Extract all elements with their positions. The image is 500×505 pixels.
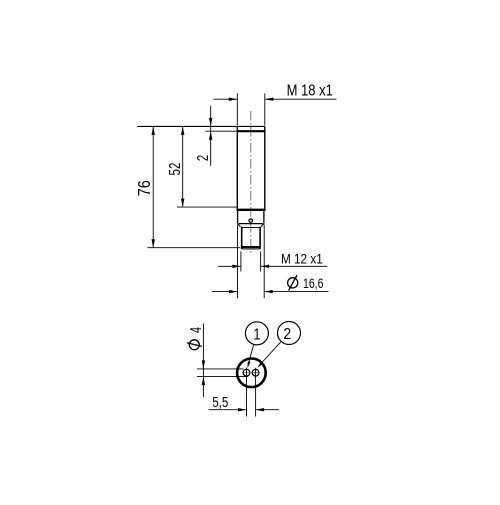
svg-text:1: 1: [253, 326, 260, 344]
extension lines body dia (16.6): [238, 225, 265, 299]
svg-text:M 18 x1: M 18 x1: [287, 82, 333, 99]
M12 thread section: [241, 227, 261, 249]
svg-text:4: 4: [187, 327, 204, 333]
M12 thread relief thick line: [242, 246, 260, 248]
dim 5,5: [209, 409, 280, 411]
body top face line with left extension: [137, 125, 265, 127]
svg-text:76: 76: [135, 180, 155, 196]
pin 2: [252, 369, 259, 376]
connector circle: [237, 359, 266, 388]
svg-text:16,6: 16,6: [303, 275, 324, 291]
extension lines below M12: [241, 252, 261, 272]
svg-text:2: 2: [283, 325, 291, 343]
dia symbol 16.6: [288, 275, 298, 290]
leader 2: [261, 341, 281, 363]
body bottom thick line: [237, 209, 266, 211]
dim 2 line: [210, 106, 212, 166]
dim 76 line: [152, 126, 154, 247]
balloon 2: [278, 322, 301, 345]
dia 4 label: [187, 340, 202, 350]
dia 4 extension lines: [197, 369, 248, 377]
pin 1 cross: [242, 372, 251, 374]
connector housing: [238, 211, 264, 227]
sensor body outline: [237, 126, 264, 209]
extension line for 2 dim: [206, 130, 238, 132]
svg-text:52: 52: [165, 162, 183, 175]
M12 dimension line: [218, 265, 327, 267]
thread start thick line: [237, 130, 264, 132]
leader 1: [249, 344, 254, 363]
M12 bottom face: [243, 248, 260, 250]
left extension lines: [148, 207, 241, 248]
pin 1: [243, 369, 250, 376]
dia 4 dimension line: [202, 324, 204, 398]
pin extension lines down: [247, 368, 256, 417]
LED dot: [249, 219, 253, 223]
svg-text:5,5: 5,5: [212, 393, 228, 410]
M18 dimension line: [214, 98, 337, 100]
balloon 1: [245, 322, 268, 345]
dia 16.6 dimension line: [212, 291, 329, 293]
centerline main view: [250, 111, 252, 253]
svg-text:M 12 x1: M 12 x1: [281, 251, 323, 267]
pin 2 cross: [251, 372, 260, 374]
M18 arrows: [229, 98, 238, 101]
M18 extension lines above: [237, 93, 264, 125]
svg-text:2: 2: [195, 155, 212, 161]
dim 52 line: [182, 126, 184, 207]
